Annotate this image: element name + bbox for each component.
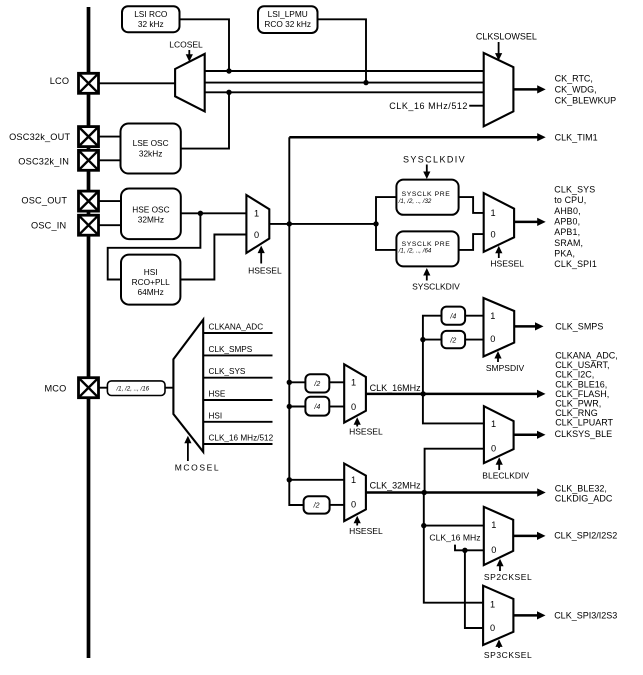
svg-text:APB1,: APB1,: [554, 227, 580, 237]
svg-text:32kHz: 32kHz: [139, 148, 163, 158]
svg-text:CLK_FLASH,: CLK_FLASH,: [555, 389, 609, 399]
svg-text:1: 1: [490, 600, 495, 610]
svg-text:CLK_BLE32,: CLK_BLE32,: [555, 484, 607, 494]
svg-text:CLK_SMPS: CLK_SMPS: [555, 322, 603, 332]
svg-text:LCO: LCO: [50, 76, 70, 86]
svg-text:CLK_RNG: CLK_RNG: [555, 408, 598, 418]
svg-text:CLKSLOWSEL: CLKSLOWSEL: [476, 31, 537, 41]
svg-text:CLK_BLE16,: CLK_BLE16,: [555, 379, 607, 389]
svg-text:0: 0: [491, 545, 496, 555]
svg-text:to CPU,: to CPU,: [554, 195, 586, 205]
svg-text:OSC32k_IN: OSC32k_IN: [18, 157, 69, 167]
svg-text:CLK_I2C,: CLK_I2C,: [555, 370, 594, 380]
svg-text:/2: /2: [313, 503, 320, 510]
svg-text:SYSCLKDIV: SYSCLKDIV: [403, 154, 466, 164]
svg-text:0: 0: [351, 500, 356, 510]
svg-text:CLK_16MHz: CLK_16MHz: [370, 383, 422, 393]
svg-text:1: 1: [351, 378, 356, 388]
svg-text:HSE OSC: HSE OSC: [132, 204, 169, 214]
svg-text:1: 1: [490, 208, 495, 218]
svg-text:HSESEL: HSESEL: [248, 266, 282, 276]
svg-text:32 kHz: 32 kHz: [138, 19, 164, 29]
svg-text:PKA,: PKA,: [554, 248, 575, 258]
svg-text:SRAM,: SRAM,: [554, 238, 583, 248]
svg-text:CLKANA_ADC,: CLKANA_ADC,: [555, 350, 618, 360]
svg-text:CLK_SYS: CLK_SYS: [554, 185, 595, 195]
svg-text:0: 0: [490, 334, 495, 344]
svg-text:HSI: HSI: [144, 267, 158, 277]
svg-text:CLK_TIM1: CLK_TIM1: [555, 132, 598, 142]
svg-text:CLK_32MHz: CLK_32MHz: [370, 481, 422, 491]
svg-text:OSC_IN: OSC_IN: [31, 221, 66, 231]
svg-text:1: 1: [491, 419, 496, 429]
svg-text:64MHz: 64MHz: [138, 287, 164, 297]
svg-text:CLK_16 MHz: CLK_16 MHz: [429, 532, 480, 542]
svg-text:SYSCLKDIV: SYSCLKDIV: [412, 282, 460, 292]
svg-text:CLK_SYS: CLK_SYS: [209, 367, 246, 376]
svg-text:MCO: MCO: [44, 384, 66, 394]
svg-text:CLK_PWR,: CLK_PWR,: [555, 399, 601, 409]
svg-text:SMPSDIV: SMPSDIV: [486, 363, 525, 373]
svg-text:CLKSYS_BLE: CLKSYS_BLE: [555, 429, 613, 439]
svg-text:CLK_SMPS: CLK_SMPS: [209, 345, 253, 354]
svg-text:CLK_16 MHz/512: CLK_16 MHz/512: [209, 434, 274, 443]
svg-text:1: 1: [254, 209, 259, 219]
svg-text:MCOSEL: MCOSEL: [175, 463, 221, 473]
svg-text:CLKDIG_ADC: CLKDIG_ADC: [555, 494, 613, 504]
svg-text:CLK_16 MHz/512: CLK_16 MHz/512: [389, 101, 468, 111]
svg-text:/1, /2, .., /32: /1, /2, .., /32: [398, 198, 432, 205]
svg-text:CK_RTC,: CK_RTC,: [555, 73, 593, 83]
svg-text:32MHz: 32MHz: [138, 215, 164, 225]
svg-text:HSI: HSI: [209, 411, 223, 420]
svg-text:0: 0: [490, 623, 495, 633]
svg-text:/4: /4: [313, 404, 320, 411]
svg-text:CLK_SPI3/I2S3: CLK_SPI3/I2S3: [554, 611, 617, 621]
svg-text:0: 0: [490, 229, 495, 239]
svg-text:RCO+PLL: RCO+PLL: [132, 277, 170, 287]
svg-text:0: 0: [254, 230, 259, 240]
svg-text:CLK_LPUART: CLK_LPUART: [555, 418, 613, 428]
svg-text:AHB0,: AHB0,: [554, 206, 580, 216]
svg-text:SP3CKSEL: SP3CKSEL: [484, 650, 532, 660]
svg-text:APB0,: APB0,: [554, 217, 580, 227]
svg-text:CLK_SPI1: CLK_SPI1: [554, 259, 597, 269]
svg-text:CLK_USART,: CLK_USART,: [555, 360, 609, 370]
svg-text:LSE OSC: LSE OSC: [133, 138, 169, 148]
svg-text:LSI_LPMU: LSI_LPMU: [268, 9, 308, 19]
svg-text:HSESEL: HSESEL: [349, 526, 383, 536]
svg-text:HSESEL: HSESEL: [349, 427, 383, 437]
svg-text:1: 1: [351, 475, 356, 485]
svg-text:0: 0: [351, 402, 356, 412]
svg-text:CK_BLEWKUP: CK_BLEWKUP: [555, 95, 617, 105]
svg-text:/2: /2: [449, 337, 456, 344]
svg-text:HSE: HSE: [209, 390, 226, 399]
svg-text:LCOSEL: LCOSEL: [169, 39, 203, 49]
svg-text:1: 1: [490, 311, 495, 321]
svg-text:SP2CKSEL: SP2CKSEL: [484, 572, 532, 582]
svg-text:RCO 32 kHz: RCO 32 kHz: [264, 19, 311, 29]
svg-text:OSC32k_OUT: OSC32k_OUT: [9, 132, 70, 142]
svg-text:BLECLKDIV: BLECLKDIV: [482, 470, 529, 480]
svg-text:LSI RCO: LSI RCO: [134, 9, 168, 19]
svg-text:CK_WDG,: CK_WDG,: [555, 84, 597, 94]
svg-text:/1, /2, .., /64: /1, /2, .., /64: [398, 248, 432, 255]
svg-text:0: 0: [491, 444, 496, 454]
svg-text:/1, /2, .., /16: /1, /2, .., /16: [115, 386, 149, 393]
svg-text:CLKANA_ADC: CLKANA_ADC: [209, 323, 264, 332]
svg-text:1: 1: [491, 520, 496, 530]
svg-text:OSC_OUT: OSC_OUT: [21, 196, 67, 206]
svg-text:CLK_SPI2/I2S2: CLK_SPI2/I2S2: [554, 531, 617, 541]
svg-text:HSESEL: HSESEL: [490, 258, 524, 268]
svg-text:/4: /4: [449, 313, 456, 320]
svg-text:/2: /2: [313, 381, 320, 388]
